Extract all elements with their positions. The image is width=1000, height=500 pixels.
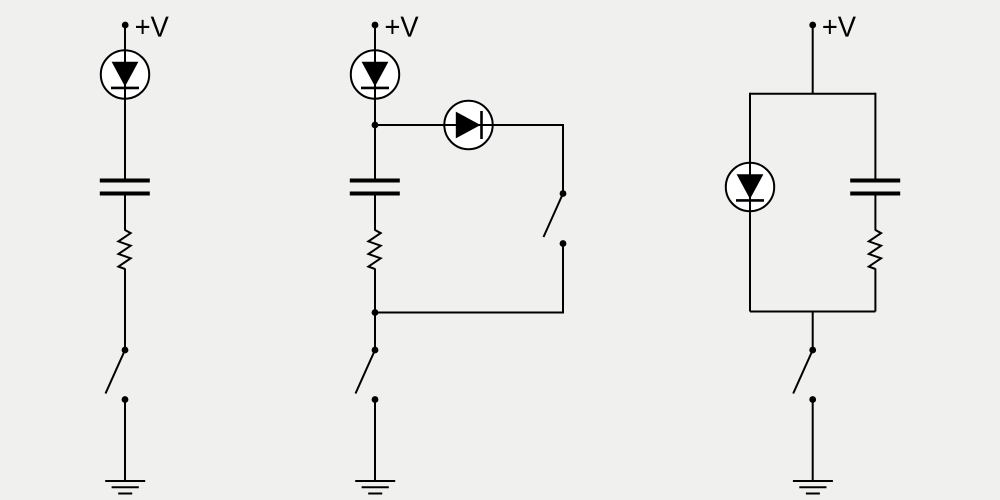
diode D4 (triangle + cathode bar) — [736, 174, 764, 200]
wire (capacitor to resistor) — [874, 194, 876, 231]
wire (capacitor to resistor) — [124, 194, 126, 231]
wire (supply to capacitor, through D2) — [374, 25, 376, 181]
switch SW1 — [106, 347, 129, 403]
label +V (circuit 1) — [136, 17, 169, 37]
switch SW3 — [356, 347, 379, 403]
node B (junction, circuit 2 bottom) — [372, 309, 379, 316]
resistor R1 — [118, 230, 130, 269]
wire (supply down to top rail) — [812, 25, 814, 94]
node A (junction, circuit 2 top) — [372, 122, 379, 129]
wire (switch to ground) — [374, 400, 376, 482]
label +V (circuit 2) — [386, 17, 419, 37]
diode D2 (circle body) — [351, 50, 399, 98]
wire (bottom rail) — [750, 311, 875, 313]
ground (circuit 1) — [105, 481, 145, 494]
wire (resistor to bottom rail) — [874, 269, 876, 312]
ground (circuit 2) — [355, 481, 395, 494]
wire (junction A to right branch, through D3) — [375, 124, 563, 126]
diode D4 (circle body) — [726, 163, 774, 211]
wire (switch to ground) — [124, 400, 126, 482]
diode D1 (triangle + cathode bar) — [111, 62, 139, 88]
diode D3 (circle body) — [444, 101, 492, 149]
resistor R3 — [869, 230, 881, 269]
wire (switch to ground) — [812, 400, 814, 482]
diode D3 (triangle + cathode bar) — [456, 111, 482, 139]
switch SW4 — [793, 347, 816, 403]
wire (resistor to switch) — [124, 269, 126, 351]
switch SW2 — [544, 190, 567, 247]
wire (right branch down to switch SW2) — [562, 124, 564, 194]
label +V (circuit 3) — [823, 17, 856, 37]
wire (right branch top, rail to capacitor) — [874, 93, 876, 181]
wire (top rail) — [750, 93, 875, 95]
wire (bottom rail to switch) — [812, 312, 814, 351]
wire (SW2 down to bottom corner) — [562, 244, 564, 313]
capacitor C3 — [850, 181, 900, 194]
capacitor C1 — [100, 181, 150, 194]
diode D2 (triangle + cathode bar) — [361, 62, 389, 88]
wire (supply to capacitor, through D1) — [124, 25, 126, 181]
node +V (circuit 3) — [809, 22, 816, 29]
node +V (circuit 2) — [372, 22, 379, 29]
wire (bottom corner to junction B) — [375, 312, 564, 314]
ground (circuit 3) — [793, 481, 833, 494]
node +V (circuit 1) — [122, 22, 129, 29]
capacitor C2 — [350, 181, 400, 194]
resistor R2 — [368, 230, 380, 269]
wire (resistor through junction B to switch) — [374, 269, 376, 351]
diode D1 (circle body) — [101, 50, 149, 98]
wire (left branch, through D4) — [749, 93, 751, 312]
wire (capacitor to resistor) — [374, 194, 376, 231]
